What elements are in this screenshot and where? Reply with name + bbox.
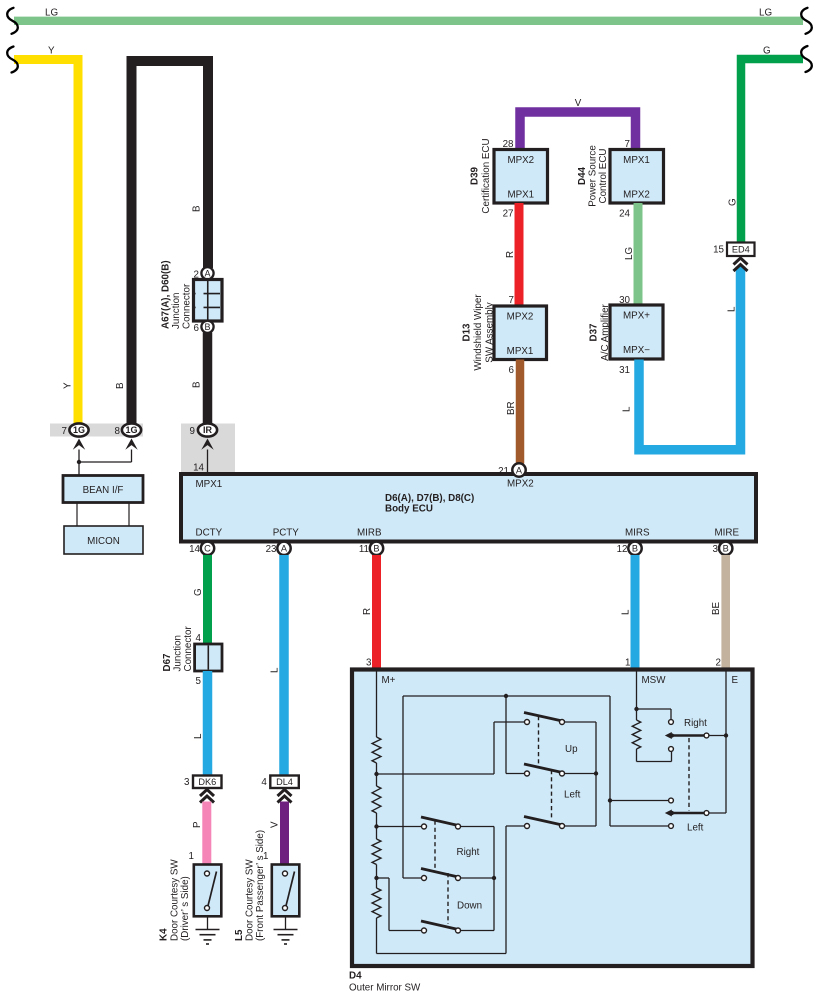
svg-text:L: L <box>622 406 633 412</box>
ground at K4 <box>207 917 209 930</box>
svg-text:MIRB: MIRB <box>357 528 382 539</box>
svg-text:Right: Right <box>684 718 707 729</box>
chevron arrows at DL4 <box>278 790 292 797</box>
gray band (1G connectors) <box>50 424 143 437</box>
pin 3 (B) of Body ECU <box>719 542 732 555</box>
svg-text:MICON: MICON <box>87 536 120 547</box>
svg-text:Body ECU: Body ECU <box>385 504 433 515</box>
break symbol left of Y <box>7 47 18 73</box>
wire LG bus (top) <box>14 17 803 25</box>
switch K4 Door Courtesy SW (Driver side) <box>194 865 222 917</box>
svg-text:Door Courtesy SW: Door Courtesy SW <box>245 859 256 941</box>
svg-text:7: 7 <box>62 426 67 437</box>
dashed gang link S1-S2 <box>538 716 540 767</box>
svg-text:24: 24 <box>619 209 630 220</box>
svg-text:D44: D44 <box>577 166 588 185</box>
svg-text:4: 4 <box>261 777 267 788</box>
resistor (ladder 3) <box>372 839 381 865</box>
svg-text:D13: D13 <box>462 323 473 342</box>
switch D13 Windshield Wiper SW Assembly <box>494 306 547 360</box>
wire from BEAN I/F to 1G connectors <box>78 450 80 476</box>
node S2 common <box>594 771 598 775</box>
connector DL4 <box>270 776 299 789</box>
switch contact Right (S4) <box>421 817 461 826</box>
svg-text:G: G <box>763 46 771 57</box>
svg-text:Junction: Junction <box>173 635 184 672</box>
wire right commons of S1-S3 <box>564 721 596 723</box>
svg-text:MPX2: MPX2 <box>507 155 534 166</box>
svg-text:12: 12 <box>617 544 628 555</box>
wire right commons of S4-S6 <box>460 826 494 828</box>
dashed gang link selectors <box>688 738 690 811</box>
arrow below IR pin 9 <box>201 439 213 450</box>
svg-text:L: L <box>270 667 281 673</box>
switch D4 Outer Mirror SW (box) <box>352 670 753 967</box>
svg-text:K4: K4 <box>159 928 170 941</box>
wire L (blue) from D37 pin 31 to connector ED4 <box>639 267 741 450</box>
wire LG (light green) from D44 pin 24 to D37 pin 30 <box>634 203 643 305</box>
svg-text:MPX1: MPX1 <box>507 190 534 201</box>
svg-text:3: 3 <box>184 777 190 788</box>
svg-text:B: B <box>373 544 379 554</box>
svg-text:E: E <box>732 675 739 686</box>
wire B (black) from A67 pin 6 to IR pin 9 <box>203 333 213 425</box>
wire bottom run to Left contact riser <box>377 953 507 955</box>
svg-text:LG: LG <box>759 8 772 19</box>
svg-text:D4: D4 <box>349 971 362 982</box>
switch contact Left (S3) <box>524 817 565 826</box>
chevron arrows at DK6 <box>200 790 214 797</box>
wire top rail drop to S2 contact <box>505 696 507 774</box>
svg-text:D37: D37 <box>589 323 600 342</box>
pin 12 (B) of Body ECU <box>628 542 641 555</box>
svg-text:6: 6 <box>194 323 200 334</box>
svg-text:Right: Right <box>457 847 480 858</box>
svg-text:L: L <box>621 609 632 615</box>
svg-text:Junction: Junction <box>171 293 182 330</box>
pin 23 (A) of Body ECU <box>277 542 290 555</box>
svg-text:MPX2: MPX2 <box>507 479 534 490</box>
wire Y (yellow) from break to connector 1G pin 7 <box>14 60 78 425</box>
connector 1G pin 7 <box>69 423 88 436</box>
svg-text:Windshield Wiper: Windshield Wiper <box>473 294 484 371</box>
arrow below 1G pin 8 <box>125 439 137 450</box>
svg-text:9: 9 <box>190 426 195 437</box>
break symbol left of LG <box>7 8 18 34</box>
svg-text:A: A <box>516 465 523 475</box>
dashed gang link S5-S6 <box>447 873 449 924</box>
switch contact (S2) <box>524 764 565 773</box>
svg-text:MSW: MSW <box>642 675 667 686</box>
wire tap3 to Down contact <box>377 877 390 879</box>
wire feed from top rail to lower-left contacts <box>609 696 611 826</box>
wire M+ vertical with resistor ladder <box>376 671 378 737</box>
svg-text:MPX2: MPX2 <box>623 190 650 201</box>
switch contact Down (S6) <box>421 921 461 930</box>
svg-text:Y: Y <box>48 46 55 57</box>
svg-text:R: R <box>362 608 373 615</box>
svg-text:27: 27 <box>503 209 514 220</box>
amplifier D37 A/C Amplifier <box>610 305 663 359</box>
node S5 common <box>492 876 496 880</box>
wire G (green) from break to connector ED4 <box>741 59 803 243</box>
selector arm Right (upper) <box>669 720 674 725</box>
ECU D6(A), D7(B), D8(C) Body ECU <box>181 474 756 542</box>
ground at L5 <box>285 917 287 930</box>
wire V (purple) linking D39 pin 28 and D44 pin 7 <box>520 112 636 150</box>
svg-text:6: 6 <box>509 365 515 376</box>
svg-text:L5: L5 <box>234 929 245 941</box>
svg-text:C: C <box>204 544 211 554</box>
svg-text:31: 31 <box>619 365 630 376</box>
wire G (green) from pin 14 to D67 <box>203 555 212 644</box>
svg-text:MIRS: MIRS <box>625 528 650 539</box>
wire P (pink) from DK6 to K4 pin 1 <box>202 802 211 865</box>
svg-text:LG: LG <box>45 8 58 19</box>
wire R (red) from D39 pin 27 to D13 pin 7 <box>515 203 524 306</box>
wire R (red) from pin 11 to Outer Mirror SW pin 3 <box>372 555 381 668</box>
svg-text:11: 11 <box>359 544 369 555</box>
svg-text:P: P <box>192 821 203 828</box>
selector arm Left (lower) <box>669 798 674 803</box>
ECU D39 Certification ECU <box>494 150 548 204</box>
wire common top rail <box>403 695 610 697</box>
svg-text:Left: Left <box>564 790 581 801</box>
svg-text:A: A <box>281 544 288 554</box>
svg-text:Left: Left <box>687 823 704 834</box>
svg-text:MPX1: MPX1 <box>196 479 223 490</box>
svg-text:7: 7 <box>625 139 630 150</box>
svg-text:1: 1 <box>189 851 194 862</box>
node tap 1 <box>374 772 378 776</box>
arrow below 1G pin 7 <box>73 439 85 450</box>
svg-text:B: B <box>192 381 203 388</box>
svg-text:Door Courtesy SW: Door Courtesy SW <box>170 859 181 941</box>
svg-text:DL4: DL4 <box>276 777 293 787</box>
svg-text:1G: 1G <box>73 425 85 435</box>
svg-text:A67(A), D60(B): A67(A), D60(B) <box>161 260 172 329</box>
pin 21 (A) of Body ECU <box>512 463 525 476</box>
svg-text:A/C Amplifier: A/C Amplifier <box>600 303 611 360</box>
svg-text:Outer Mirror SW: Outer Mirror SW <box>349 983 421 994</box>
svg-text:M+: M+ <box>382 675 396 686</box>
svg-text:D6(A), D7(B), D8(C): D6(A), D7(B), D8(C) <box>385 493 474 504</box>
svg-text:PCTY: PCTY <box>273 528 300 539</box>
svg-text:A: A <box>204 269 210 279</box>
svg-text:28: 28 <box>503 139 514 150</box>
svg-text:(Driver’ s Side): (Driver’ s Side) <box>180 876 191 941</box>
svg-text:L: L <box>727 306 738 312</box>
wire L (blue) from pin 23 to DL4 <box>279 555 289 776</box>
node tap 3 <box>374 876 378 880</box>
break symbol right of LG <box>801 8 812 34</box>
svg-text:5: 5 <box>196 676 202 687</box>
svg-text:2: 2 <box>716 658 721 669</box>
svg-text:MPX2: MPX2 <box>507 312 534 323</box>
svg-text:Up: Up <box>565 744 578 755</box>
break symbol right of G <box>801 46 812 72</box>
svg-text:B: B <box>204 322 210 332</box>
svg-text:3: 3 <box>713 544 719 555</box>
svg-text:Connector: Connector <box>182 283 193 329</box>
svg-text:BEAN I/F: BEAN I/F <box>83 485 124 496</box>
svg-text:BR: BR <box>506 401 517 415</box>
wire tap2 to Right contact <box>377 826 422 828</box>
svg-text:Y: Y <box>63 382 74 389</box>
svg-text:14: 14 <box>193 463 204 474</box>
svg-text:V: V <box>575 98 582 109</box>
dashed gang link S4-S5 <box>434 821 436 872</box>
svg-text:IR: IR <box>203 425 213 435</box>
svg-text:4: 4 <box>196 633 202 644</box>
svg-text:DCTY: DCTY <box>196 528 223 539</box>
node on top rail <box>504 694 508 698</box>
connector ED4 <box>727 243 755 257</box>
wire MSW lead <box>636 671 638 720</box>
wire BE (beige) from pin 3 to Outer Mirror SW pin 2 <box>721 555 730 668</box>
svg-text:Connector: Connector <box>183 626 194 672</box>
svg-text:B: B <box>115 382 126 389</box>
resistor (MSW) <box>632 720 640 749</box>
wire V (purple) from DL4 to L5 pin 1 <box>280 802 289 865</box>
svg-text:B: B <box>192 205 203 212</box>
wire E rail <box>725 671 727 813</box>
svg-text:3: 3 <box>366 658 372 669</box>
svg-text:Down: Down <box>457 901 482 912</box>
svg-text:G: G <box>193 588 204 596</box>
pin 14 (C) of Body ECU <box>201 542 214 555</box>
svg-text:MPX−: MPX− <box>623 345 650 356</box>
svg-text:MIRE: MIRE <box>715 528 740 539</box>
svg-text:7: 7 <box>509 295 514 306</box>
svg-text:G: G <box>728 198 739 206</box>
svg-text:30: 30 <box>619 295 630 306</box>
wire tap1 to Up contact <box>377 773 495 775</box>
svg-text:R: R <box>505 251 516 258</box>
wire L (blue) from pin 12 to Outer Mirror SW pin 1 <box>631 555 640 668</box>
wire from Body ECU pin 14 to IR <box>207 450 209 475</box>
chevron arrows at ED4 <box>734 258 748 265</box>
svg-text:V: V <box>270 821 281 828</box>
svg-text:MPX+: MPX+ <box>623 311 650 322</box>
block BEAN I/F <box>63 476 143 503</box>
connector IR pin 9 <box>198 423 217 436</box>
svg-text:Power Source: Power Source <box>588 145 599 207</box>
resistor (ladder 2) <box>372 786 381 813</box>
junction connector A67(A), D60(B) <box>201 267 213 279</box>
svg-text:15: 15 <box>713 245 724 256</box>
svg-text:LG: LG <box>624 247 635 260</box>
svg-text:B: B <box>723 544 729 554</box>
node E rail <box>724 733 728 737</box>
svg-text:(Front Passenger’ s Side): (Front Passenger’ s Side) <box>255 830 266 941</box>
node tap 2 <box>374 824 378 828</box>
wire arm to E rail <box>709 735 726 737</box>
node MSW <box>634 707 638 711</box>
svg-text:B: B <box>632 544 638 554</box>
svg-text:1G: 1G <box>125 425 137 435</box>
junction node <box>77 460 81 464</box>
wires BEAN I/F to MICON <box>76 503 78 527</box>
svg-text:L: L <box>193 733 204 739</box>
svg-text:1: 1 <box>625 658 630 669</box>
ECU D44 Power Source Control ECU <box>610 150 664 204</box>
svg-text:BE: BE <box>711 601 722 615</box>
svg-text:23: 23 <box>266 544 277 555</box>
svg-text:MPX1: MPX1 <box>623 155 650 166</box>
connector 1G pin 8 <box>122 423 141 436</box>
pin 11 (B) of Body ECU <box>370 542 383 555</box>
block MICON <box>64 526 143 554</box>
resistor (ladder 4) <box>372 888 381 918</box>
svg-text:14: 14 <box>189 544 200 555</box>
svg-text:Control ECU: Control ECU <box>598 149 609 204</box>
wire top rail left riser to S5 <box>402 696 404 878</box>
svg-text:SW Assembly: SW Assembly <box>485 302 496 363</box>
switch L5 Door Courtesy SW (Front Passenger side) <box>272 865 300 917</box>
gray band (IR connector) <box>181 424 235 473</box>
svg-text:D39: D39 <box>470 166 481 185</box>
resistor (ladder 1) <box>372 737 381 763</box>
node feed <box>608 798 612 802</box>
dashed gang link S2-S3 <box>551 770 553 820</box>
switch contact Up (S1) <box>524 713 565 722</box>
switch contact (S5) <box>421 869 461 878</box>
svg-text:ED4: ED4 <box>732 245 750 255</box>
svg-text:DK6: DK6 <box>198 777 216 787</box>
wire L (blue) from D67 pin 5 to DK6 <box>203 671 213 776</box>
svg-text:Certification ECU: Certification ECU <box>481 138 492 213</box>
wire B (black) inverted-U from 1G pin 8 to junction connector A67 pin 2 <box>132 61 209 424</box>
wire BR (brown) from D13 pin 6 to Body ECU pin 21 <box>516 360 525 464</box>
connector DK6 <box>193 776 222 789</box>
svg-text:21: 21 <box>498 466 509 477</box>
svg-text:D67: D67 <box>162 653 173 672</box>
svg-text:MPX1: MPX1 <box>507 346 534 357</box>
svg-text:8: 8 <box>115 426 121 437</box>
